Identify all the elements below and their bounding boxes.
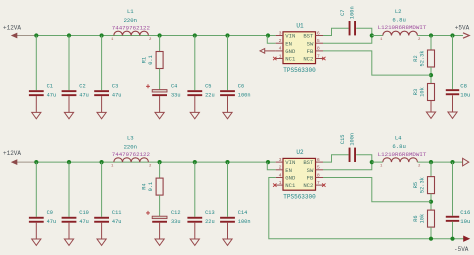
junction rail/C13 xyxy=(193,160,197,164)
ground under C3 xyxy=(97,96,106,119)
junction rail/C14 xyxy=(225,160,229,164)
wire C9 to rail xyxy=(35,162,37,217)
junction rail/C5 xyxy=(193,33,197,37)
junction rail/C2 xyxy=(67,33,71,37)
wire C2 to rail xyxy=(68,36,70,91)
svg-text:C3: C3 xyxy=(112,83,118,89)
svg-text:6.8u: 6.8u xyxy=(392,16,405,23)
svg-text:C5: C5 xyxy=(205,83,211,89)
ground under C8 xyxy=(448,95,457,118)
svg-text:1: 1 xyxy=(279,180,282,186)
junction rail/R4 xyxy=(158,160,162,164)
svg-text:C16: C16 xyxy=(460,209,470,216)
svg-text:L1: L1 xyxy=(127,8,134,15)
power label -5VA xyxy=(454,236,470,253)
svg-text:FB: FB xyxy=(307,175,314,182)
wire C3 to rail xyxy=(101,36,103,91)
wire EN jog U1 xyxy=(267,36,275,44)
wire R6 to -5VA rail xyxy=(430,227,432,239)
svg-text:C2: C2 xyxy=(79,83,85,89)
resistor R2 52.3k xyxy=(413,50,435,67)
capacitor C6 100n xyxy=(220,83,250,98)
svg-text:U1: U1 xyxy=(296,23,304,30)
wire U1 FB to divider xyxy=(323,51,431,75)
power label +12VA (bottom) xyxy=(3,150,36,165)
svg-text:4: 4 xyxy=(279,46,282,52)
svg-text:BST: BST xyxy=(303,33,314,40)
wire R4 to C12 xyxy=(159,195,161,216)
junction rail/C1 xyxy=(34,33,38,37)
ground under C4 xyxy=(155,96,164,119)
svg-text:FB: FB xyxy=(307,48,314,55)
svg-text:L4: L4 xyxy=(395,135,402,142)
resistor R5 52.3k xyxy=(413,177,435,194)
svg-text:0.1: 0.1 xyxy=(148,55,154,65)
ground flag at U1 GND pin xyxy=(260,49,276,54)
svg-text:R3: R3 xyxy=(413,89,419,95)
svg-text:52.3k: 52.3k xyxy=(419,177,425,193)
svg-text:VIN: VIN xyxy=(285,33,295,40)
svg-text:7: 7 xyxy=(317,53,320,59)
svg-text:22u: 22u xyxy=(205,219,215,225)
ground under C10 xyxy=(64,223,73,246)
svg-text:10k: 10k xyxy=(419,214,425,224)
label L1 value xyxy=(112,8,151,32)
svg-text:C13: C13 xyxy=(205,210,215,216)
svg-text:7: 7 xyxy=(317,180,320,186)
wire rail to R1 xyxy=(159,36,161,52)
svg-text:74479762122: 74479762122 xyxy=(112,24,151,31)
svg-text:C7: C7 xyxy=(340,10,346,16)
resistor R4 0.1 xyxy=(142,178,164,195)
svg-text:47u: 47u xyxy=(47,219,57,225)
svg-text:74479762122: 74479762122 xyxy=(112,151,151,158)
svg-text:R4: R4 xyxy=(142,183,148,189)
svg-text:TPS563300: TPS563300 xyxy=(283,67,316,74)
svg-text:R6: R6 xyxy=(413,215,419,221)
svg-text:1: 1 xyxy=(279,53,282,59)
svg-text:8: 8 xyxy=(317,46,320,52)
svg-text:220n: 220n xyxy=(124,144,137,151)
svg-text:2: 2 xyxy=(279,38,282,44)
junction rail/U1 VIN-EN xyxy=(266,33,270,37)
ground under R3 xyxy=(426,101,435,119)
capacitor C5 22u xyxy=(187,83,214,98)
no-connect X on U1 pin 7 (NC2) xyxy=(322,57,325,60)
svg-text:C9: C9 xyxy=(47,210,53,216)
wire SW to L2 xyxy=(372,35,383,37)
svg-text:VIN: VIN xyxy=(285,159,295,166)
svg-text:BST: BST xyxy=(303,159,314,166)
ground under C13 xyxy=(190,223,199,246)
inductor L3 220n xyxy=(111,158,152,169)
svg-text:0.1: 0.1 xyxy=(148,182,154,192)
capacitor C9 47u xyxy=(29,210,56,225)
power label +5VA xyxy=(455,25,470,39)
power label +12VA (top) xyxy=(3,25,36,39)
svg-text:SW: SW xyxy=(307,167,314,174)
junction FB/R2/R3 xyxy=(429,73,433,77)
wire rail to C14 xyxy=(227,162,229,217)
wire R1 to C4 xyxy=(159,69,161,90)
svg-text:100n: 100n xyxy=(238,92,251,98)
svg-text:U2: U2 xyxy=(296,149,304,156)
junction rail/C11 xyxy=(100,160,104,164)
wire C16 to -5VA rail xyxy=(452,222,454,239)
wire R2 to R3 xyxy=(430,67,432,84)
capacitor C13 22u xyxy=(187,210,214,225)
capacitor C3 47u xyxy=(94,83,121,98)
capacitor C15 100n xyxy=(340,133,356,162)
svg-text:C10: C10 xyxy=(79,210,89,216)
svg-text:C8: C8 xyxy=(460,82,467,89)
junction SW node xyxy=(370,160,374,164)
unconnected output flag xyxy=(463,158,469,166)
svg-text:22u: 22u xyxy=(205,92,215,98)
svg-text:47u: 47u xyxy=(112,92,122,98)
junction rail/C3 xyxy=(100,33,104,37)
inductor L2 6.8u xyxy=(380,31,421,42)
junction output/R2 xyxy=(429,33,433,37)
svg-text:NC2: NC2 xyxy=(303,56,313,63)
wire output to R5 xyxy=(430,162,432,177)
wire output to C16 xyxy=(452,162,454,216)
wire C10 to rail xyxy=(68,162,70,217)
svg-text:-5VA: -5VA xyxy=(454,246,469,253)
svg-text:EN: EN xyxy=(285,167,292,174)
junction output/C16 xyxy=(450,160,454,164)
svg-text:47u: 47u xyxy=(47,92,57,98)
svg-text:SW: SW xyxy=(307,40,314,47)
svg-text:2: 2 xyxy=(279,165,282,171)
op-amp U2 TPS563300 regulator xyxy=(276,149,323,201)
svg-text:5: 5 xyxy=(317,165,320,171)
wire +12V rail (top) xyxy=(36,35,275,37)
svg-text:GND: GND xyxy=(285,175,296,182)
ground under C1 xyxy=(32,96,41,119)
ground under C5 xyxy=(190,96,199,119)
svg-text:+12VA: +12VA xyxy=(3,25,21,32)
capacitor C11 47u xyxy=(94,210,121,225)
wire rail to C6 xyxy=(227,36,229,91)
junction -5VA/R6 xyxy=(429,237,433,241)
svg-text:C6: C6 xyxy=(238,83,244,89)
svg-text:C15: C15 xyxy=(340,135,346,145)
label L4 value xyxy=(378,135,427,158)
wire U2 GND to -5VA rail xyxy=(269,178,464,239)
wire C15 to SW node xyxy=(356,155,372,162)
svg-text:NC1: NC1 xyxy=(285,56,296,63)
svg-text:GND: GND xyxy=(285,48,296,55)
junction SW node xyxy=(370,33,374,37)
wire rail to C13 xyxy=(194,162,196,217)
svg-text:10k: 10k xyxy=(419,87,425,97)
junction rail/R1 xyxy=(158,33,162,37)
svg-text:6: 6 xyxy=(317,30,320,36)
capacitor C12 33u xyxy=(146,210,181,225)
wire U1 BST to C7 xyxy=(323,28,349,35)
junction rail/C9 xyxy=(34,160,38,164)
svg-text:C11: C11 xyxy=(112,210,122,216)
capacitor C10 47u xyxy=(62,210,89,225)
ground under C11 xyxy=(97,223,106,246)
wire rail to C5 xyxy=(194,36,196,91)
svg-text:8: 8 xyxy=(317,172,320,178)
no-connect X on U1 pin 1 (NC1) xyxy=(273,57,276,60)
ground under C6 xyxy=(223,96,232,119)
svg-text:10u: 10u xyxy=(460,91,470,98)
svg-text:10u: 10u xyxy=(460,218,470,225)
capacitor C14 100n xyxy=(220,210,250,225)
svg-text:L2: L2 xyxy=(395,8,402,15)
svg-text:100n: 100n xyxy=(349,133,355,146)
svg-text:5: 5 xyxy=(317,38,320,44)
wire C11 to rail xyxy=(101,162,103,217)
wire L4 to output xyxy=(417,161,463,163)
svg-text:C1: C1 xyxy=(47,83,53,89)
wire C7 to SW node xyxy=(356,28,372,35)
svg-text:33u: 33u xyxy=(171,92,181,98)
wire R5 to R6 xyxy=(430,194,432,211)
svg-text:TPS563300: TPS563300 xyxy=(283,194,316,201)
svg-text:4: 4 xyxy=(279,172,282,178)
wire output to C8 xyxy=(452,36,454,90)
svg-text:L1210R6R8MDWIT: L1210R6R8MDWIT xyxy=(378,24,427,31)
svg-text:47u: 47u xyxy=(79,219,89,225)
svg-text:R1: R1 xyxy=(142,57,148,63)
svg-text:R5: R5 xyxy=(413,182,419,188)
junction output/R5 xyxy=(429,160,433,164)
wire L2 to output xyxy=(417,35,463,37)
capacitor C1 47u xyxy=(29,83,56,98)
svg-text:100n: 100n xyxy=(349,6,355,19)
resistor R3 10k xyxy=(413,84,435,101)
svg-text:EN: EN xyxy=(285,40,292,47)
wire C1 to rail xyxy=(35,36,37,91)
label L2 value xyxy=(378,8,427,31)
capacitor C4 33u xyxy=(146,83,181,98)
svg-text:47u: 47u xyxy=(112,219,122,225)
wire EN jog U2 xyxy=(267,162,275,170)
junction rail/C10 xyxy=(67,160,71,164)
junction -5VA/C16 xyxy=(450,237,454,241)
no-connect X on U2 pin 7 (NC2) xyxy=(322,183,325,186)
wire rail to R4 xyxy=(159,162,161,178)
resistor R1 0.1 xyxy=(142,52,164,69)
wire U1 SW to inductor xyxy=(323,36,372,44)
op-amp U1 TPS563300 regulator xyxy=(276,23,323,75)
wire +12V rail (bottom) xyxy=(36,161,275,163)
junction output/C8 xyxy=(450,33,454,37)
resistor R6 10k xyxy=(413,210,435,227)
svg-text:L3: L3 xyxy=(127,134,134,141)
svg-text:33u: 33u xyxy=(171,219,181,225)
svg-text:52.3k: 52.3k xyxy=(419,51,425,67)
svg-text:+12VA: +12VA xyxy=(3,150,21,157)
svg-text:NC2: NC2 xyxy=(303,182,313,189)
wire U2 BST to C15 xyxy=(323,155,349,162)
capacitor C16 10u xyxy=(446,209,471,225)
svg-text:R2: R2 xyxy=(413,55,419,61)
svg-text:L1210R6R8MDWIT: L1210R6R8MDWIT xyxy=(378,151,427,158)
junction FB/R5/R6 xyxy=(429,200,433,204)
svg-text:47u: 47u xyxy=(79,92,89,98)
svg-text:6: 6 xyxy=(317,157,320,163)
capacitor C8 10u xyxy=(446,82,471,98)
inductor L4 6.8u xyxy=(380,158,421,169)
svg-text:6.8u: 6.8u xyxy=(392,143,405,150)
capacitor C7 100n xyxy=(340,6,356,35)
ground under C12 xyxy=(155,223,164,246)
wire U2 SW to inductor xyxy=(323,162,372,170)
label L3 value xyxy=(112,134,151,158)
svg-text:+5VA: +5VA xyxy=(455,25,470,32)
svg-text:C12: C12 xyxy=(171,210,181,216)
wire output to R2 xyxy=(430,36,432,51)
svg-text:220n: 220n xyxy=(124,17,137,24)
no-connect X on U2 pin 1 (NC1) xyxy=(273,183,276,186)
wire SW to L4 xyxy=(372,161,383,163)
svg-text:C4: C4 xyxy=(171,83,177,89)
svg-text:3: 3 xyxy=(279,30,282,36)
svg-text:100n: 100n xyxy=(238,219,251,225)
svg-text:3: 3 xyxy=(279,157,282,163)
inductor L1 220n xyxy=(111,31,152,42)
junction rail/C6 xyxy=(225,33,229,37)
capacitor C2 47u xyxy=(62,83,89,98)
svg-text:C14: C14 xyxy=(238,210,248,216)
svg-text:NC1: NC1 xyxy=(285,182,296,189)
ground under C14 xyxy=(223,223,232,246)
junction rail/U2 VIN-EN xyxy=(266,160,270,164)
wire U2 FB to divider xyxy=(323,178,431,202)
ground under C9 xyxy=(32,223,41,246)
ground under C2 xyxy=(64,96,73,119)
